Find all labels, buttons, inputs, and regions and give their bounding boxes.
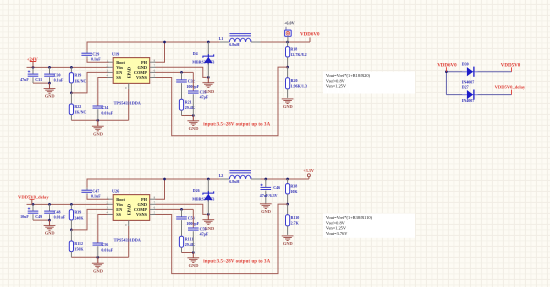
capacitor C31 (polarized bulk input cap) <box>32 67 34 74</box>
ground input caps <box>44 88 56 90</box>
svg-text:R110: R110 <box>291 215 300 220</box>
junction comp network <box>180 71 183 74</box>
svg-text:TPS54331DDA: TPS54331DDA <box>114 237 141 242</box>
inductor L2 6.8uH <box>220 178 230 180</box>
svg-text:12.7K/8.2: 12.7K/8.2 <box>290 52 306 57</box>
ground slow-start cap / EPAD <box>97 120 99 126</box>
diode D26 MBRS340T3 (catch) <box>207 179 209 193</box>
wire bootstrap cap to Boot pin 1 <box>87 195 108 199</box>
svg-text:+6.0V: +6.0V <box>284 21 295 26</box>
svg-text:R21: R21 <box>185 99 192 104</box>
ground slow-start cap / EPAD <box>97 257 99 263</box>
junction feedback divider midpoint <box>286 203 289 206</box>
svg-text:GND: GND <box>45 94 55 99</box>
op-amp U19 TPS54331DDA buck regulator <box>113 58 150 84</box>
svg-text:R39: R39 <box>74 210 81 215</box>
junction feedback divider midpoint <box>286 66 289 69</box>
svg-text:C31: C31 <box>35 77 42 82</box>
diode D27 IN4007 <box>462 94 478 96</box>
junction input rail at C-in bulk <box>32 66 35 69</box>
svg-text:GND: GND <box>283 104 293 109</box>
svg-text:0.01uF: 0.01uF <box>101 110 113 115</box>
junction comp ground <box>192 114 195 117</box>
svg-text:0.1uF: 0.1uF <box>91 194 101 199</box>
wire GND pin 7 to ground <box>155 204 206 214</box>
junction PH riser on switch rail <box>163 178 166 181</box>
svg-text:150K: 150K <box>74 247 84 252</box>
svg-text:29.4K: 29.4K <box>185 242 196 247</box>
op-amp U26 TPS54331DDA buck regulator <box>113 195 150 221</box>
wire VDD6V0 to diode block <box>446 71 466 73</box>
svg-text:VDD5V0_delay: VDD5V0_delay <box>495 84 526 89</box>
svg-text:0.01uF: 0.01uF <box>54 214 66 219</box>
capacitor C30 (ceramic input cap) <box>49 67 51 74</box>
inductor L1 6.8uH <box>220 41 230 43</box>
capacitor C47 (bootstrap) <box>86 188 88 190</box>
svg-text:VDD6V0: VDD6V0 <box>300 32 320 37</box>
junction comp network <box>180 208 183 211</box>
svg-text:29.4K: 29.4K <box>185 105 196 110</box>
junction catch diode on switch rail <box>207 178 210 181</box>
svg-text:IN4007: IN4007 <box>462 98 474 103</box>
svg-text:L1: L1 <box>219 36 224 41</box>
wire inductor to +6.0V output <box>261 41 311 43</box>
junction catch diode on switch rail <box>207 41 210 44</box>
ground feedback divider <box>282 235 294 237</box>
capacitor C59 (comp hf) <box>192 209 194 228</box>
svg-text:GND: GND <box>93 131 103 136</box>
svg-text:6.8uH: 6.8uH <box>229 42 240 47</box>
wire comp network to ground <box>182 252 194 254</box>
wire switch node rail (boot top to inductor) <box>87 42 220 51</box>
resistor R22 (enable divider bottom) <box>70 93 72 104</box>
junction input rail at C-in bulk <box>32 203 35 206</box>
svg-text:GND: GND <box>283 241 293 246</box>
wire inductor to +3.3V output <box>261 178 309 180</box>
ground comp network <box>192 116 194 121</box>
svg-text:10uF: 10uF <box>20 214 29 219</box>
svg-text:D4: D4 <box>193 51 198 56</box>
capacitor C46 (output bulk) <box>265 179 267 187</box>
svg-text:EPAD: EPAD <box>127 67 132 78</box>
svg-text:1.96K/1.3: 1.96K/1.3 <box>291 83 307 88</box>
junction at slow-start cap ground <box>96 256 99 259</box>
resistor R111 (comp) <box>179 236 183 247</box>
svg-text:SS: SS <box>116 75 121 80</box>
wire EPAD pin 9 down <box>128 89 130 120</box>
capacitor C48 (ceramic input cap) <box>49 204 51 211</box>
ground output cap <box>260 203 272 205</box>
wire input caps to ground <box>33 219 50 221</box>
svg-text:L2: L2 <box>219 173 224 178</box>
wire PH pin 8 up to switch rail <box>155 179 164 199</box>
svg-text:TPS54331DDA: TPS54331DDA <box>114 100 141 105</box>
junction diode anode / IC ground <box>207 213 210 216</box>
svg-text:47uF: 47uF <box>20 77 29 82</box>
capacitor C33 (comp hf) <box>192 72 194 91</box>
node VDD6V0 right label <box>445 67 447 72</box>
capacitor C32 (comp) <box>181 72 183 79</box>
junction enable divider midpoint <box>70 229 73 232</box>
svg-text:GND: GND <box>261 209 271 214</box>
wire VDD6V0 branch down to D27 <box>445 72 447 95</box>
wire EPAD pin 9 down <box>128 226 130 257</box>
svg-text:R111: R111 <box>185 236 193 241</box>
svg-text:6.8uH: 6.8uH <box>229 179 240 184</box>
resistor R38 (feedback top) <box>287 179 289 184</box>
svg-text:47pF: 47pF <box>200 232 209 237</box>
svg-text:0.01uF: 0.01uF <box>101 247 113 252</box>
svg-text:MBRS340T3: MBRS340T3 <box>192 59 214 64</box>
svg-text:input:3.5~28V output up to 3A: input:3.5~28V output up to 3A <box>203 122 270 127</box>
svg-text:C46: C46 <box>273 185 280 190</box>
svg-text:R38: R38 <box>290 184 297 189</box>
junction at input cap ground <box>48 82 51 85</box>
svg-text:Ven=1.25V: Ven=1.25V <box>326 226 347 231</box>
resistor R20 (feedback bottom) <box>287 67 289 78</box>
svg-text:U19: U19 <box>112 51 119 56</box>
svg-text:C49: C49 <box>35 214 42 219</box>
svg-text:VDD5V0: VDD5V0 <box>501 63 521 68</box>
junction input rail at C-in ceramic <box>48 66 51 69</box>
svg-text:C56: C56 <box>101 242 108 247</box>
svg-text:VDD5V0_delay: VDD5V0_delay <box>18 194 49 199</box>
resistor R21 (comp) <box>179 99 183 110</box>
node VDD6V0 net label stub <box>309 37 311 42</box>
wire +input rail to Vin pin 2 <box>27 203 109 205</box>
svg-text:1K/NC: 1K/NC <box>74 78 86 83</box>
svg-text:VSNS: VSNS <box>136 75 148 80</box>
svg-text:47pF: 47pF <box>200 95 209 100</box>
wire GND pin 7 to ground <box>155 67 206 77</box>
wire VSNS pin 5 feedback loop <box>155 204 287 274</box>
svg-text:R18: R18 <box>290 47 297 52</box>
svg-text:R112: R112 <box>74 241 83 246</box>
wire bootstrap cap to Boot pin 1 <box>87 58 108 62</box>
junction output cap <box>264 178 267 181</box>
junction at slow-start cap ground <box>96 119 99 122</box>
svg-text:D30: D30 <box>462 61 469 66</box>
capacitor C56 (slow-start) <box>98 215 109 243</box>
wire enable divider midpoint to EN pin 3 <box>71 209 108 230</box>
junction input rail at C-in ceramic <box>48 203 51 206</box>
junction at input cap ground <box>48 219 51 222</box>
svg-text:SS: SS <box>116 212 121 217</box>
svg-text:VSNS: VSNS <box>136 212 148 217</box>
svg-text:Vref=0.8V: Vref=0.8V <box>326 78 346 83</box>
power port +6.0V <box>285 30 292 36</box>
wire enable bottom / slow-start cap / EPAD to ground <box>71 256 128 258</box>
svg-text:240K: 240K <box>74 215 84 220</box>
svg-text:C59: C59 <box>200 226 207 231</box>
junction comp ground <box>192 251 195 254</box>
capacitor C29 (bootstrap) <box>86 51 88 53</box>
node VDD5V0_delay right net label <box>511 90 513 95</box>
power port +3.3V <box>308 177 310 179</box>
svg-text:47uF/6.3V: 47uF/6.3V <box>260 193 278 198</box>
svg-text:2.7K: 2.7K <box>291 220 300 225</box>
svg-text:D26: D26 <box>193 188 200 193</box>
svg-text:GND: GND <box>93 268 103 273</box>
capacitor C58 (comp) <box>181 209 183 216</box>
wire VSNS pin 5 feedback loop <box>155 67 287 136</box>
svg-text:MBRS340T3: MBRS340T3 <box>192 196 214 201</box>
junction input rail at R-enable top <box>70 203 73 206</box>
diode D30 IN4007 <box>462 71 478 73</box>
junction input rail at R-enable top <box>70 66 73 69</box>
resistor R39 (enable divider top) <box>70 204 72 209</box>
svg-text:0.1uF: 0.1uF <box>91 57 101 62</box>
resistor R110 (feedback bottom) <box>287 204 289 215</box>
svg-text:R20: R20 <box>291 78 298 83</box>
diode D4 MBRS340T3 (catch) <box>207 42 209 56</box>
junction enable divider midpoint <box>70 92 73 95</box>
svg-text:1K/NC: 1K/NC <box>74 110 86 115</box>
wire enable divider midpoint to EN pin 3 <box>71 72 108 93</box>
svg-text:0.1uF: 0.1uF <box>54 77 64 82</box>
note formula block for upper regulator <box>323 72 415 94</box>
svg-text:Ven=1.25V: Ven=1.25V <box>326 84 347 89</box>
svg-text:R22: R22 <box>74 104 81 109</box>
svg-text:GND: GND <box>189 126 199 131</box>
svg-text:EPAD: EPAD <box>127 204 132 215</box>
junction output at feedback divider <box>286 178 289 181</box>
resistor R112 (enable divider bottom) <box>70 230 72 241</box>
note formula block for lower regulator <box>323 213 415 237</box>
wire input caps to ground <box>33 82 50 84</box>
ground catch diode / IC GND pin <box>202 219 214 221</box>
wire COMP pin 6 to compensation network <box>155 71 193 73</box>
svg-text:10K: 10K <box>290 189 298 194</box>
wire switch node rail (boot top to inductor) <box>87 179 220 188</box>
wire comp network to ground <box>182 115 194 117</box>
junction output at feedback divider <box>286 41 289 44</box>
ground catch diode / IC GND pin <box>202 82 214 84</box>
resistor R19 (enable divider top) <box>70 67 72 72</box>
svg-text:C34: C34 <box>101 105 108 110</box>
junction PH riser on switch rail <box>163 41 166 44</box>
svg-text:U26: U26 <box>112 188 119 193</box>
svg-text:GND: GND <box>45 231 55 236</box>
node VDD5V0 net label <box>511 67 513 71</box>
wire +input rail to Vin pin 2 <box>27 66 109 68</box>
svg-text:VDD6V0: VDD6V0 <box>437 63 457 68</box>
svg-text:+3.3V: +3.3V <box>303 168 314 173</box>
wire D27 anode to VDD5V0_delay <box>446 94 466 96</box>
resistor R18 (feedback top) <box>287 42 289 47</box>
svg-text:GND: GND <box>189 263 199 268</box>
junction VDD6V0 branch <box>445 70 448 73</box>
capacitor C49 (polarized bulk input cap) <box>32 204 34 211</box>
junction diode anode / IC ground <box>207 76 210 79</box>
wire enable bottom / slow-start cap / EPAD to ground <box>71 119 128 121</box>
capacitor C34 (slow-start) <box>98 78 109 106</box>
ground feedback divider <box>282 98 294 100</box>
svg-text:input:3.5~28V output up to 3A: input:3.5~28V output up to 3A <box>203 259 270 264</box>
svg-text:C33: C33 <box>200 89 207 94</box>
wire PH pin 8 up to switch rail <box>155 42 164 62</box>
svg-text:D27: D27 <box>462 84 469 89</box>
svg-text:R19: R19 <box>74 73 81 78</box>
ground comp network <box>192 253 194 258</box>
ground input caps <box>44 225 56 227</box>
wire COMP pin 6 to compensation network <box>155 208 193 210</box>
svg-text:Vout=3.76V: Vout=3.76V <box>326 231 348 236</box>
